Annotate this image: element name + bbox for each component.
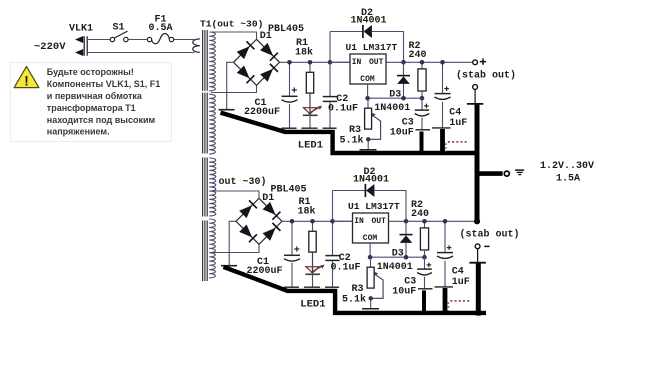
svg-text:U1 LM317T: U1 LM317T: [348, 201, 400, 212]
svg-text:Будьте осторожны!: Будьте осторожны!: [47, 67, 134, 77]
svg-text:18k: 18k: [295, 47, 313, 59]
svg-text:LED1: LED1: [300, 298, 325, 310]
wire D1 minus corner to ground: [227, 62, 234, 109]
wire VLK1 to S1 (top): [88, 39, 110, 41]
svg-text:(stab out): (stab out): [456, 70, 516, 82]
svg-text:D3: D3: [392, 249, 404, 260]
svg-text:напряжением.: напряжением.: [47, 127, 110, 137]
svg-text:C4: C4: [452, 267, 464, 278]
svg-text:18k: 18k: [298, 206, 316, 218]
svg-text:VLK1: VLK1: [69, 23, 93, 34]
svg-text:COM: COM: [363, 234, 378, 243]
resistor R2 (lower channel): [424, 221, 426, 228]
ground bus wire (thick, upper): [221, 113, 476, 153]
output terminal + (stab out): [473, 60, 478, 65]
capacitor C4 (lower channel): [444, 221, 446, 252]
potentiometer R3 (lower channel): [370, 257, 372, 267]
ground symbol at transformer: [219, 109, 235, 111]
svg-text:1N4001: 1N4001: [377, 262, 413, 273]
output common terminal upper: [473, 85, 478, 90]
wire T1 secondary bottom to D1 (lower channel): [211, 244, 259, 252]
connector VLK1 pin 2 (bottom arrow): [75, 49, 83, 56]
junction R1 rail (lower channel): [310, 219, 315, 224]
wire D2 left (lower channel): [333, 190, 366, 192]
svg-text:IN: IN: [354, 217, 364, 226]
transformer T1 core: [202, 30, 204, 91]
svg-text:PBL405: PBL405: [271, 184, 307, 195]
junction R2 COM: [420, 96, 425, 101]
connector VLK1 pin 1 (top arrow): [75, 36, 83, 43]
wire F1 to T1 primary: [174, 39, 195, 41]
transformer T1 secondary windings: [209, 32, 215, 91]
op-amp U1 LM317T regulator: [350, 54, 386, 84]
svg-text:PBL405: PBL405: [268, 24, 304, 35]
svg-text:U1 LM317T: U1 LM317T: [346, 42, 398, 53]
svg-text:OUT: OUT: [369, 58, 384, 67]
junction R2 rail (lower channel): [422, 219, 427, 224]
svg-text:5.1k: 5.1k: [340, 134, 364, 146]
diode D3: [403, 62, 405, 75]
wire rail U1 OUT to output (lower channel): [389, 220, 477, 222]
svg-text:COM: COM: [360, 75, 375, 84]
ground symbol R3 (lower channel): [362, 308, 379, 310]
svg-text:10uF: 10uF: [392, 286, 416, 297]
ground symbol at common output: [515, 169, 524, 171]
resistor R1: [309, 62, 311, 72]
svg-text:out ~30): out ~30): [219, 176, 267, 188]
wire rail U1 OUT to output: [386, 61, 473, 63]
junction R3 wiper (lower channel): [369, 296, 373, 300]
svg-text:и первичная обмотка: и первичная обмотка: [47, 91, 143, 101]
ground symbol R3: [360, 149, 377, 151]
junction R2 rail: [420, 60, 425, 65]
switch S1: [110, 37, 114, 41]
svg-text:2200uF: 2200uF: [244, 107, 280, 118]
ground bus stub C4 (thick, lower): [443, 288, 448, 313]
junction C2 rail (lower channel): [330, 219, 335, 224]
svg-text:1N4001: 1N4001: [351, 15, 387, 26]
capacitor C4: [442, 62, 444, 93]
ground symbol at transformer (lower channel): [221, 265, 237, 267]
red dotted mark lower: [450, 300, 471, 302]
output terminal - (stab out) lower: [475, 244, 480, 249]
junction C1 rail (lower channel): [290, 219, 295, 224]
capacitor C3: [421, 98, 423, 110]
svg-text:D3: D3: [389, 90, 401, 101]
transformer T1 primary winding: [193, 39, 200, 52]
ground bus wire (thick, lower): [224, 267, 487, 313]
ground bus stub C4 (thick): [440, 129, 445, 153]
wire S1 to F1: [128, 39, 147, 41]
svg-text:S1: S1: [113, 23, 125, 34]
svg-text:LED1: LED1: [298, 139, 323, 151]
capacitor C1 (lower channel): [291, 221, 293, 255]
bridge rectifier D1 (lower channel): [236, 198, 282, 244]
diode D2: [362, 25, 364, 38]
svg-text:240: 240: [409, 50, 427, 61]
svg-text:10uF: 10uF: [390, 127, 414, 138]
svg-text:2200uF: 2200uF: [247, 266, 283, 277]
wire D2 branch / capacitor C2 branch: [329, 32, 331, 97]
resistor R1 (lower channel): [312, 221, 314, 231]
wire D2 left: [330, 31, 363, 33]
junction C4 rail (lower channel): [443, 219, 448, 224]
potentiometer R3: [367, 98, 369, 108]
svg-text:1.2V..30V: 1.2V..30V: [540, 161, 594, 172]
svg-text:C4: C4: [449, 108, 461, 119]
diode D3 (lower channel): [405, 221, 407, 234]
svg-text:~220V: ~220V: [34, 41, 66, 53]
capacitor C1: [289, 62, 291, 96]
junction U1 OUT rail (lower channel): [404, 219, 409, 224]
bridge rectifier D1: [234, 39, 280, 85]
svg-text:Компоненты VLK1, S1, F1: Компоненты VLK1, S1, F1: [47, 79, 160, 89]
wire IN pin: [330, 61, 350, 63]
wire - terminal to ground bus: [477, 249, 479, 262]
junction COM R3 (lower channel): [368, 255, 373, 260]
wire T1 secondary top to D1: [211, 32, 257, 39]
capacitor C2: [323, 96, 337, 98]
svg-text:0.1uF: 0.1uF: [328, 104, 358, 115]
ground bus - terminal drop (thick, lower): [476, 264, 481, 316]
svg-text:1N4001: 1N4001: [374, 103, 410, 114]
svg-text:0.5A: 0.5A: [149, 23, 173, 34]
ground bus stub C3 (thick): [420, 132, 424, 154]
wire rail D1 to U1 IN (lower channel): [282, 220, 353, 222]
svg-text:5.1k: 5.1k: [342, 293, 366, 305]
junction R1 rail: [308, 60, 313, 65]
svg-text:0.1uF: 0.1uF: [331, 263, 361, 274]
warning triangle icon: [14, 66, 39, 87]
junction R3 wiper: [366, 137, 370, 141]
junction D3 COM: [401, 96, 406, 101]
junction C2 rail: [328, 60, 333, 65]
LED LED1: [303, 108, 316, 114]
svg-text:IN: IN: [352, 58, 362, 67]
wire VLK1 to T1 primary (bottom): [88, 52, 195, 54]
wire D1 minus corner to ground (lower channel): [229, 221, 236, 265]
svg-text:(stab out): (stab out): [460, 229, 520, 241]
connector VLK1 body (double bar): [83, 36, 85, 55]
junction U1 OUT rail: [401, 60, 406, 65]
wire rail D1 to U1 IN: [280, 61, 351, 63]
junction C4 rail: [440, 60, 445, 65]
wire common output stub (thick): [479, 171, 503, 176]
output terminal common: [504, 171, 509, 176]
junction common bus to lower rail: [474, 218, 480, 224]
svg-text:T1(out ~30): T1(out ~30): [200, 19, 263, 30]
warning note frame: [11, 63, 172, 142]
red dotted mark upper: [448, 141, 469, 143]
svg-text:1.5A: 1.5A: [556, 173, 580, 184]
svg-text:находится под высоким: находится под высоким: [47, 115, 156, 125]
LED LED1 (lower channel): [306, 267, 319, 273]
wire IN pin (lower channel): [333, 220, 353, 222]
wire D2 right (lower channel): [374, 191, 406, 222]
svg-text:трансформатора T1: трансформатора T1: [47, 103, 136, 113]
wire D2 right: [372, 32, 404, 63]
svg-text:!: !: [24, 74, 29, 89]
svg-text:1N4001: 1N4001: [353, 174, 389, 185]
junction COM R3: [365, 96, 370, 101]
wire COM net horizontal (lower channel): [370, 256, 424, 258]
wire COM net horizontal: [368, 97, 422, 99]
junction D3 COM (lower channel): [404, 255, 409, 260]
wire D2 branch / capacitor C2 branch (lower channel): [332, 191, 334, 256]
svg-text:OUT: OUT: [372, 217, 387, 226]
svg-text:240: 240: [411, 209, 429, 220]
wire U1 COM down (lower channel): [369, 243, 371, 257]
wire U1 COM down: [367, 84, 369, 98]
op-amp U1 LM317T regulator (lower channel): [353, 213, 389, 243]
capacitor C3 (lower channel): [424, 257, 426, 269]
ground bus stub C3 (thick, lower): [422, 290, 426, 313]
fuse F1: [147, 37, 151, 41]
junction C1 rail: [287, 60, 292, 65]
wire T1 secondary bottom to D1: [211, 85, 257, 92]
junction R2 COM (lower channel): [422, 255, 427, 260]
wire common bus vertical (thick): [475, 105, 480, 224]
resistor R2: [421, 62, 423, 69]
svg-text:1uF: 1uF: [449, 118, 467, 129]
capacitor C2 (lower channel): [325, 255, 339, 257]
svg-text:1uF: 1uF: [452, 277, 470, 288]
diode D2 (lower channel): [364, 184, 366, 197]
wire T1 secondary top to D1 (lower channel): [211, 191, 259, 198]
